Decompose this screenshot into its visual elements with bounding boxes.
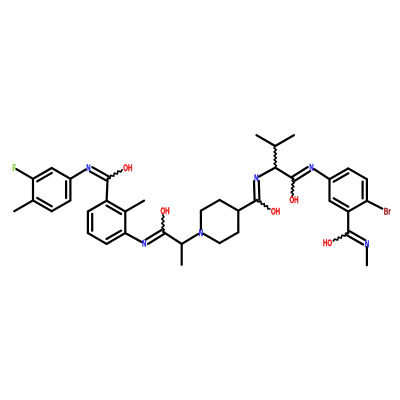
svg-text:OH: OH bbox=[160, 206, 169, 216]
bond ring3 to C5 bbox=[347, 212, 349, 234]
wavy bond C5-OH bbox=[333, 233, 348, 241]
svg-text:OH: OH bbox=[289, 195, 298, 205]
svg-text:N: N bbox=[309, 163, 313, 173]
svg-text:OH: OH bbox=[271, 206, 280, 216]
svg-text:F: F bbox=[12, 163, 16, 173]
svg-text:N: N bbox=[365, 239, 369, 249]
bond to bromine bbox=[367, 201, 382, 209]
svg-text:Br: Br bbox=[384, 206, 391, 216]
svg-text:HO: HO bbox=[323, 238, 332, 248]
bond N4 to right ring bbox=[314, 169, 330, 179]
isopropyl methyls bbox=[257, 135, 276, 146]
bond piperidine C4 to C3 bbox=[238, 200, 257, 211]
svg-text:N: N bbox=[254, 173, 258, 183]
methyl on central ring bbox=[125, 201, 144, 212]
wavy bond C3-OH bbox=[257, 200, 270, 209]
bond CH to piperidine N bbox=[182, 234, 199, 244]
bond ring2 to N2 bbox=[125, 233, 141, 242]
svg-text:N: N bbox=[142, 239, 146, 249]
svg-text:N: N bbox=[86, 163, 90, 173]
methyl on CH bbox=[181, 244, 183, 265]
left benzene ring (3-fluoro-4-methylphenyl) bbox=[33, 168, 52, 179]
svg-text:OH: OH bbox=[123, 163, 132, 173]
wavy bond CH-isopropyl bbox=[274, 146, 276, 168]
wavy bond C2-OH bbox=[162, 215, 164, 232]
imine double bond C3=N3 bbox=[258, 181, 261, 200]
methyl on left ring bbox=[14, 200, 33, 211]
piperidine ring bbox=[200, 211, 202, 230]
bond C1 to central ring bbox=[107, 179, 108, 201]
imine double bond C5=N5 bbox=[347, 235, 363, 244]
central benzene ring bbox=[107, 201, 126, 212]
wavy bond C4-OH bbox=[291, 179, 294, 196]
right benzene ring (bromo-phenyl) bbox=[330, 168, 349, 179]
N-methyl bbox=[366, 247, 368, 265]
bond alpha CH to C4 bbox=[275, 168, 293, 179]
bond N3 to alpha CH bbox=[259, 168, 275, 177]
wavy bond C1-OH bbox=[108, 170, 123, 179]
svg-text:N: N bbox=[199, 228, 203, 238]
imine double bond C4=N4 bbox=[295, 171, 311, 181]
bond C2 to CH bbox=[163, 232, 182, 244]
bond to fluorine bbox=[16, 169, 33, 179]
imine double bond N2=C2 bbox=[148, 234, 164, 244]
imine double bond N1=C1 bbox=[90, 171, 107, 180]
bond ring1 to N1 bbox=[70, 169, 86, 178]
